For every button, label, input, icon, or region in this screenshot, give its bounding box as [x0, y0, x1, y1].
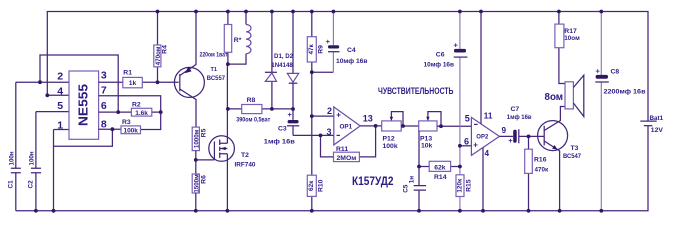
svg-text:390ом 0,5ват: 390ом 0,5ват — [236, 117, 270, 124]
svg-text:T1: T1 — [211, 67, 218, 73]
svg-text:С2: С2 — [27, 180, 34, 189]
svg-text:100н: 100н — [9, 151, 16, 165]
svg-text:5: 5 — [465, 113, 470, 123]
svg-text:P13: P13 — [420, 136, 432, 143]
svg-text:P12: P12 — [383, 136, 395, 143]
svg-text:ОР2: ОР2 — [476, 135, 489, 141]
svg-text:120к: 120к — [457, 178, 464, 193]
svg-text:NE555: NE555 — [77, 84, 91, 126]
svg-text:R16: R16 — [534, 157, 547, 164]
svg-text:1000м: 1000м — [193, 129, 200, 148]
svg-text:1.6k: 1.6k — [135, 110, 148, 117]
svg-text:R4: R4 — [162, 45, 169, 54]
svg-text:13: 13 — [363, 113, 373, 123]
svg-text:1k: 1k — [129, 80, 137, 87]
svg-text:2: 2 — [57, 71, 63, 83]
svg-text:8ом: 8ом — [545, 92, 564, 103]
svg-text:R5: R5 — [200, 128, 207, 137]
svg-text:R14: R14 — [434, 174, 447, 181]
svg-text:470ом: 470ом — [155, 46, 162, 65]
svg-text:100k: 100k — [123, 128, 138, 135]
svg-text:470к: 470к — [535, 166, 550, 173]
svg-text:6: 6 — [101, 100, 107, 112]
svg-text:OP1: OP1 — [340, 124, 353, 131]
svg-text:7: 7 — [101, 85, 107, 97]
svg-text:12V: 12V — [651, 127, 664, 134]
svg-text:1N4148: 1N4148 — [271, 62, 293, 69]
svg-text:100н: 100н — [29, 151, 36, 165]
svg-text:D1, D2: D1, D2 — [274, 53, 294, 60]
svg-text:К157УД2: К157УД2 — [352, 176, 394, 188]
svg-text:Bat1: Bat1 — [650, 115, 664, 122]
svg-text:+: + — [326, 37, 331, 46]
svg-text:T2: T2 — [241, 152, 249, 159]
svg-text:10мф 16в: 10мф 16в — [424, 62, 455, 69]
svg-text:1н: 1н — [408, 176, 415, 184]
svg-text:R8: R8 — [247, 97, 256, 104]
svg-text:8: 8 — [101, 118, 107, 130]
svg-text:11: 11 — [484, 111, 493, 120]
svg-text:C4: C4 — [347, 47, 356, 54]
svg-text:+: + — [454, 41, 459, 50]
svg-text:R*: R* — [234, 37, 242, 44]
svg-text:10ом: 10ом — [564, 35, 580, 42]
svg-text:C6: C6 — [436, 52, 445, 59]
svg-text:IRF740: IRF740 — [235, 162, 256, 169]
svg-text:3: 3 — [327, 127, 332, 137]
svg-text:4: 4 — [57, 85, 63, 97]
svg-text:62k: 62k — [434, 164, 446, 171]
svg-text:2: 2 — [327, 106, 332, 116]
svg-text:+: + — [596, 67, 601, 76]
svg-text:6: 6 — [464, 136, 469, 146]
svg-text:47к: 47к — [308, 43, 315, 54]
svg-text:BC557: BC557 — [207, 75, 226, 82]
svg-text:1500м: 1500м — [193, 174, 200, 193]
svg-text:R10: R10 — [317, 179, 324, 192]
svg-text:C3: C3 — [278, 126, 287, 133]
svg-text:3: 3 — [101, 69, 107, 81]
svg-text:10мф 16в: 10мф 16в — [336, 58, 368, 65]
svg-text:1мф 16в: 1мф 16в — [507, 114, 532, 121]
svg-text:2МОм: 2МОм — [337, 155, 357, 162]
svg-text:ВС547: ВС547 — [563, 153, 581, 160]
svg-text:+: + — [336, 111, 341, 120]
svg-text:2200мф 16в: 2200мф 16в — [604, 88, 646, 95]
svg-text:R3: R3 — [122, 119, 131, 126]
svg-text:5: 5 — [57, 100, 63, 112]
svg-text:1: 1 — [57, 119, 63, 131]
svg-text:R11: R11 — [336, 146, 348, 153]
svg-text:C7: C7 — [511, 106, 520, 113]
svg-text:ЧУВСТВИТЕЛЬНОСТЬ: ЧУВСТВИТЕЛЬНОСТЬ — [378, 86, 454, 97]
svg-text:С1: С1 — [7, 180, 14, 189]
svg-text:C8: C8 — [611, 69, 620, 76]
svg-text:С5: С5 — [403, 184, 410, 193]
svg-text:+: + — [288, 110, 293, 119]
svg-text:R2: R2 — [132, 102, 141, 109]
svg-text:R6: R6 — [200, 175, 207, 184]
svg-text:R1: R1 — [123, 70, 132, 77]
svg-text:100k: 100k — [383, 143, 398, 150]
svg-text:220ом 1ват: 220ом 1ват — [200, 52, 228, 59]
svg-text:R9: R9 — [317, 45, 324, 54]
svg-text:10k: 10k — [421, 143, 433, 150]
svg-text:+: + — [508, 136, 513, 145]
svg-text:+: + — [473, 141, 478, 150]
svg-text:1мф 16в: 1мф 16в — [264, 139, 295, 146]
svg-text:62к: 62к — [308, 180, 315, 191]
svg-text:9: 9 — [502, 126, 507, 135]
svg-text:R15: R15 — [466, 179, 473, 192]
svg-text:T3: T3 — [571, 145, 579, 152]
svg-text:4: 4 — [485, 149, 490, 158]
